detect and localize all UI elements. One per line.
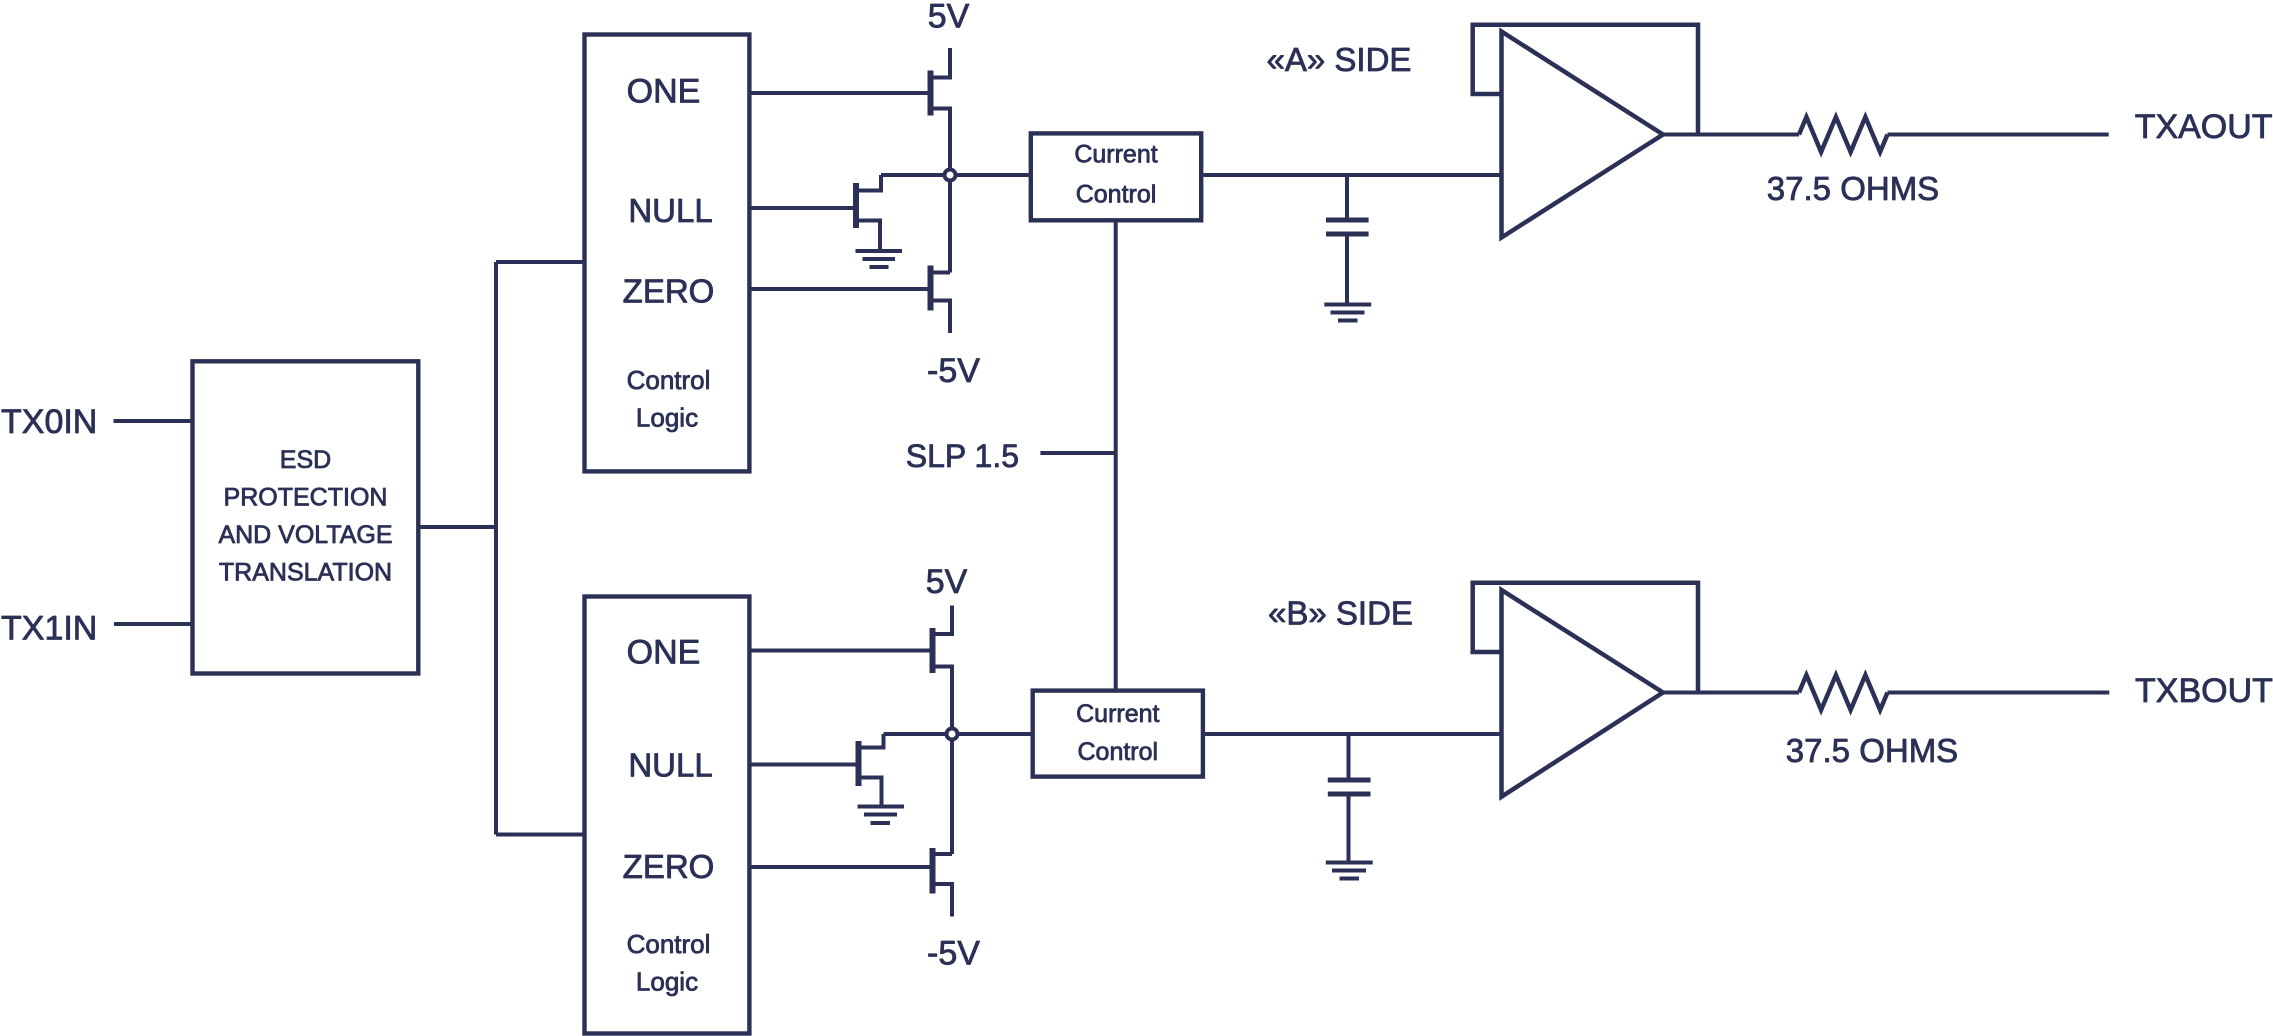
op-amp U4 triangle (A side) bbox=[1502, 32, 1664, 238]
svg-text:Current: Current bbox=[1076, 700, 1159, 728]
ground symbol G3 bbox=[858, 807, 905, 824]
ground symbol G4 bbox=[1326, 863, 1373, 879]
svg-text:-5V: -5V bbox=[927, 352, 980, 390]
wire branch to control logic B bbox=[496, 833, 583, 837]
svg-text:ZERO: ZERO bbox=[623, 273, 715, 310]
wire SLP bus vertical bbox=[1114, 222, 1118, 688]
transistor Q4 source lead down to node B bbox=[936, 667, 953, 855]
transistor Q6 top lead bbox=[936, 852, 953, 856]
svg-text:«B» SIDE: «B» SIDE bbox=[1268, 595, 1413, 632]
transistor Q1 drain lead and 5V stub bbox=[934, 48, 951, 78]
svg-text:NULL: NULL bbox=[628, 192, 712, 229]
transistor Q3 top lead bbox=[934, 271, 951, 275]
ground symbol G1 bbox=[856, 251, 903, 267]
wire node rail A bbox=[881, 173, 1029, 177]
wire NULL to Q2 gate bbox=[751, 206, 853, 210]
transistor Q3 bottom lead and -5V stub bbox=[934, 301, 951, 334]
transistor Q4 gate bar bbox=[930, 628, 936, 673]
wire op-amp B output left segment bbox=[1663, 691, 1799, 695]
wire ESD output bbox=[420, 525, 496, 529]
wire current control A output bbox=[1203, 173, 1501, 177]
wire branch to control logic A bbox=[496, 260, 583, 264]
svg-text:Control: Control bbox=[1076, 180, 1157, 208]
block U6 Current Control B bbox=[1033, 691, 1203, 777]
wire TX0IN lead bbox=[114, 419, 191, 423]
transistor Q2 top lead to node rail bbox=[859, 175, 881, 191]
capacitor C1 bottom stub bbox=[1345, 237, 1349, 303]
wire SLP 1.5 lead bbox=[1040, 451, 1115, 455]
capacitor C2 top stub bbox=[1347, 734, 1351, 778]
transistor Q6 gate bar bbox=[930, 848, 936, 894]
wire current control B output bbox=[1205, 732, 1502, 736]
resistor R1 zigzag bbox=[1799, 117, 1888, 152]
svg-text:NULL: NULL bbox=[628, 747, 712, 784]
node A junction ring bbox=[945, 170, 956, 181]
svg-text:Control: Control bbox=[627, 365, 711, 395]
wire ZERO to Q3 gate bbox=[751, 287, 927, 291]
wire TX1IN lead bbox=[114, 622, 191, 626]
wire node rail B bbox=[884, 732, 1031, 736]
wire R1 to TXAOUT bbox=[1888, 133, 2109, 137]
capacitor C2 plates bbox=[1328, 780, 1371, 794]
wire op-amp A output left segment bbox=[1663, 133, 1799, 137]
svg-text:Current: Current bbox=[1074, 140, 1157, 168]
svg-text:Control: Control bbox=[627, 929, 711, 959]
svg-text:TXBOUT: TXBOUT bbox=[2135, 672, 2273, 710]
svg-text:ZERO: ZERO bbox=[623, 848, 715, 885]
wire ONE to Q1 gate bbox=[751, 91, 927, 95]
wire R2 to TXBOUT bbox=[1888, 691, 2110, 695]
transistor Q5 bottom lead to ground bbox=[862, 778, 882, 805]
svg-text:TRANSLATION: TRANSLATION bbox=[219, 559, 392, 587]
wire ZERO to Q6 gate bbox=[751, 865, 929, 869]
svg-text:«A» SIDE: «A» SIDE bbox=[1267, 41, 1412, 78]
svg-text:-5V: -5V bbox=[927, 935, 980, 973]
op-amp U7 triangle (B side) bbox=[1502, 590, 1664, 797]
wire ONE to Q4 gate bbox=[751, 649, 929, 653]
svg-text:Logic: Logic bbox=[636, 967, 698, 997]
svg-text:5V: 5V bbox=[928, 0, 970, 36]
svg-text:TX0IN: TX0IN bbox=[1, 403, 97, 441]
svg-text:ONE: ONE bbox=[627, 634, 701, 672]
svg-text:TXAOUT: TXAOUT bbox=[2135, 108, 2273, 146]
svg-text:Logic: Logic bbox=[636, 403, 698, 433]
ground symbol G2 bbox=[1324, 305, 1371, 321]
svg-text:5V: 5V bbox=[926, 563, 968, 601]
svg-text:Control: Control bbox=[1078, 738, 1159, 766]
svg-text:TX1IN: TX1IN bbox=[1, 610, 97, 648]
svg-text:AND VOLTAGE: AND VOLTAGE bbox=[218, 521, 392, 549]
node B junction ring bbox=[947, 729, 958, 740]
transistor Q5 top lead to node rail bbox=[862, 734, 884, 748]
transistor Q6 bottom lead and -5V stub bbox=[936, 884, 953, 917]
block U5 Control Logic B bbox=[585, 597, 750, 1034]
op-amp U7 feedback loop bbox=[1473, 583, 1698, 693]
capacitor C1 plates bbox=[1326, 220, 1369, 234]
svg-text:ESD: ESD bbox=[280, 446, 331, 474]
block U1 ESD protection and voltage translation bbox=[193, 361, 419, 673]
svg-text:37.5 OHMS: 37.5 OHMS bbox=[1767, 170, 1939, 207]
resistor R2 zigzag bbox=[1799, 675, 1888, 710]
wire NULL to Q5 gate bbox=[751, 763, 855, 767]
block U2 Control Logic A bbox=[585, 35, 750, 472]
wire branch vertical bbox=[494, 262, 498, 835]
transistor Q1 gate bar bbox=[928, 71, 934, 116]
svg-text:ONE: ONE bbox=[627, 73, 701, 111]
svg-text:37.5 OHMS: 37.5 OHMS bbox=[1786, 732, 1958, 769]
transistor Q5 gate bar bbox=[856, 741, 862, 786]
transistor Q3 gate bar bbox=[928, 266, 934, 311]
transistor Q2 gate bar bbox=[853, 183, 859, 228]
capacitor C2 bottom stub bbox=[1347, 797, 1351, 861]
svg-text:SLP 1.5: SLP 1.5 bbox=[906, 438, 1019, 474]
block U3 Current Control A bbox=[1031, 133, 1201, 220]
transistor Q1 source lead down to node A bbox=[934, 109, 951, 273]
capacitor C1 top stub bbox=[1345, 175, 1349, 218]
op-amp U4 feedback loop bbox=[1473, 25, 1698, 135]
transistor Q4 drain lead and 5V stub bbox=[936, 606, 953, 635]
transistor Q2 bottom lead to ground bbox=[859, 221, 880, 250]
svg-text:PROTECTION: PROTECTION bbox=[224, 484, 388, 512]
